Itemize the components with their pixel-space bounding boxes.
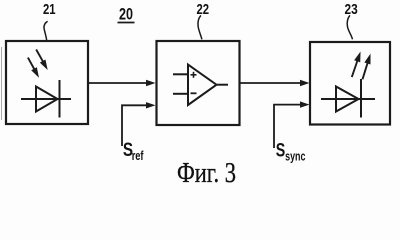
- scan artifact left edge line: [1, 47, 3, 120]
- diode anode/cathode wire: [21, 98, 71, 100]
- emitted light arrow 1: [352, 53, 360, 78]
- svg-text:S: S: [276, 141, 286, 162]
- cathode bar: [59, 80, 61, 118]
- output stub: [217, 84, 228, 86]
- cathode bar: [360, 79, 362, 118]
- diode triangle: [36, 87, 58, 112]
- inverting input stub: [173, 93, 188, 95]
- svg-text:21: 21: [43, 1, 56, 18]
- svg-text:sync: sync: [285, 149, 305, 164]
- LED D2 in block 23: [321, 79, 375, 118]
- block 22 box (amplifier): [157, 41, 240, 125]
- light arrow 1 into photodiode: [28, 58, 39, 77]
- wire: Ssync input (vertical + horizontal): [274, 105, 302, 148]
- svg-text:Фиг. 3: Фиг. 3: [177, 157, 236, 187]
- block 21 box (photodetector): [6, 41, 88, 124]
- wire: block 22 output to block 23: [240, 82, 302, 84]
- leader line for 22: [198, 15, 202, 39]
- arrowhead into block 23: [300, 80, 310, 86]
- svg-text:20: 20: [119, 6, 133, 24]
- arrowhead into block 22 (signal input): [146, 80, 156, 86]
- plus sign (non-inverting pin): [191, 72, 197, 78]
- op-amp triangle: [188, 65, 217, 106]
- arrowhead Ssync into block 23: [300, 101, 310, 107]
- diode triangle: [336, 87, 359, 112]
- underline of 20: [118, 22, 135, 24]
- svg-text:ref: ref: [132, 148, 144, 163]
- minus sign (inverting pin): [191, 92, 197, 94]
- non-inverting input stub: [173, 73, 188, 75]
- svg-text:22: 22: [197, 1, 210, 18]
- svg-text:23: 23: [345, 1, 358, 18]
- wire: block 21 output to block 22: [88, 82, 148, 84]
- light arrow 2 into photodiode: [36, 50, 47, 70]
- arrowhead Sref into block 22: [146, 102, 156, 108]
- block 23 box (light emitter): [310, 42, 390, 125]
- leader line for 23: [347, 15, 352, 39]
- leader line for 21: [44, 21, 48, 41]
- diode wire: [321, 98, 375, 100]
- photodiode D1 in block 21: [21, 80, 71, 118]
- emitted light arrow 2: [363, 55, 371, 80]
- op-amp U1 in block 22: [173, 65, 228, 106]
- wire: Sref input (vertical + horizontal): [122, 105, 148, 146]
